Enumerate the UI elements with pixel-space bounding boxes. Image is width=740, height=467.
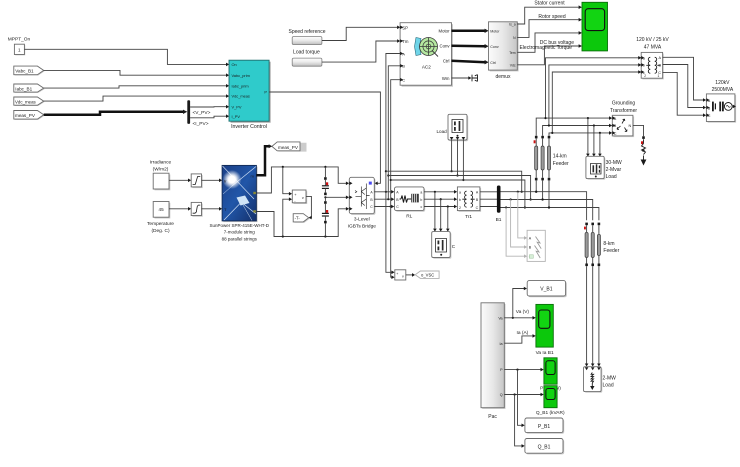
svg-text:Load: Load	[603, 383, 614, 389]
constant Speed reference	[292, 37, 322, 45]
svg-text:Load torque: Load torque	[293, 49, 320, 55]
svg-text:Q_B1: Q_B1	[538, 444, 551, 450]
feeder 8-km column B	[591, 223, 594, 364]
svg-text:Stator current: Stator current	[534, 1, 565, 7]
scope Q_B1 (green)	[544, 386, 557, 408]
wire fault tap B (grey)	[511, 200, 525, 248]
svg-text:Speed reference: Speed reference	[289, 29, 326, 35]
PV array block	[222, 165, 258, 222]
voltage measurement V1	[292, 190, 307, 204]
constant block 1 (MPPT_On)	[14, 44, 25, 55]
svg-text:Electromagnetic Torque: Electromagnetic Torque	[519, 45, 572, 51]
svg-text:On: On	[232, 62, 237, 67]
svg-text:SunPower SPR-415E-WHT-D: SunPower SPR-415E-WHT-D	[210, 223, 270, 228]
wire transformer b feed	[549, 65, 641, 126]
load block (motor bus)	[448, 114, 468, 141]
wire Tr1 C to B1	[480, 206, 497, 208]
wire PV m to meas_PV (thick)	[256, 146, 269, 175]
svg-text:(Deg. C): (Deg. C)	[151, 228, 170, 234]
wire Pac Q to scope and Q_B1	[504, 394, 540, 396]
svg-text:8-km: 8-km	[603, 241, 614, 247]
svg-text:(W/m2): (W/m2)	[153, 166, 169, 172]
svg-text:Inverter Control: Inverter Control	[231, 124, 267, 130]
goto P_B1	[525, 418, 564, 434]
svg-text:2: 2	[459, 206, 461, 210]
wire AC2 Ctrl to demux (thick)	[452, 61, 486, 63]
goto tag meas_PV	[272, 142, 307, 152]
svg-text:V_PV: V_PV	[232, 104, 242, 109]
feeder 8-km column A	[584, 223, 588, 364]
svg-text:88 parallel strings: 88 parallel strings	[222, 237, 258, 242]
svg-text:Irradiance: Irradiance	[150, 159, 172, 165]
wire RL a to Tr1	[424, 191, 454, 193]
transformer Tr1	[457, 187, 481, 212]
wire IGBT B to RL	[374, 198, 391, 200]
svg-text:Feeder: Feeder	[553, 161, 569, 167]
svg-text:-T-: -T-	[295, 216, 301, 221]
svg-text:Vabc_B1: Vabc_B1	[15, 69, 34, 74]
svg-text:Temperature: Temperature	[147, 221, 174, 227]
wire V1 plus input	[283, 167, 289, 194]
svg-text:Vdc_meas: Vdc_meas	[15, 99, 37, 104]
goto tag -T-	[293, 214, 310, 223]
wire Temperature to saturation2	[169, 208, 188, 210]
wire PV plus to IGBT (dc+)	[256, 167, 346, 193]
wire fault tap A (grey)	[518, 192, 524, 238]
wire V1 out to goto -T-	[306, 196, 311, 217]
wire Vdc_meas to Inverter	[44, 96, 227, 101]
svg-text:IGBTs Bridge: IGBTs Bridge	[348, 224, 377, 230]
svg-text:b: b	[459, 198, 461, 202]
constant Load torque	[292, 58, 322, 66]
wire grounding N to arrester	[633, 125, 644, 136]
wire AC2 Motor to demux (thick)	[452, 30, 486, 33]
svg-text:2-MW: 2-MW	[603, 375, 617, 381]
constant Temperature 45	[153, 202, 170, 219]
source 120kV 2500MVA	[706, 94, 736, 123]
from tag Vdc_meas	[14, 97, 45, 106]
wire transformer c feed	[552, 72, 641, 133]
svg-text:<I_PV>: <I_PV>	[193, 121, 209, 127]
svg-text:Load: Load	[437, 129, 448, 134]
feeder 14-km column A	[534, 136, 538, 193]
svg-text:Load: Load	[606, 174, 617, 180]
series block RL	[395, 187, 426, 212]
svg-text:Grounding: Grounding	[612, 101, 636, 107]
wire IGBT C to RL	[374, 206, 391, 208]
svg-text:+: +	[396, 272, 398, 276]
wire arrows into 2-MW load	[585, 364, 589, 367]
svg-text:Va Ia B1: Va Ia B1	[536, 350, 554, 356]
wire B1 bus phase A	[501, 192, 587, 221]
wire bus selector I_PV out	[190, 116, 226, 118]
svg-text:30-MW: 30-MW	[606, 160, 622, 166]
wire Speed reference to AC2 SP	[322, 27, 397, 40]
svg-text:1: 1	[658, 74, 660, 78]
scope machines (green)	[582, 2, 608, 51]
wire B1 bus phase C	[501, 208, 599, 221]
wire grid bus phase B	[543, 126, 610, 136]
svg-text:meas_PV: meas_PV	[15, 113, 36, 118]
scope P_B1 (green)	[544, 358, 557, 384]
wire Irradiance to saturation	[169, 179, 188, 181]
fault block (three-phase fault, commented grey)	[527, 230, 545, 261]
wire transformer C to source	[663, 72, 704, 115]
svg-text:meas_PV: meas_PV	[278, 145, 299, 150]
wire transformer B to source	[663, 65, 704, 108]
svg-text:Tem: Tem	[509, 51, 516, 55]
wire filter C taps	[434, 192, 436, 229]
wire motor bus phase C	[391, 180, 525, 208]
svg-text:Tr1: Tr1	[465, 214, 472, 220]
wire B1 bus phase B	[501, 200, 593, 221]
wire 30-MW load taps	[587, 118, 589, 154]
svg-text:Rotor speed: Rotor speed	[538, 14, 565, 20]
svg-text:c: c	[421, 205, 423, 209]
svg-text:AC2: AC2	[422, 64, 431, 69]
wire V1 minus input	[283, 199, 289, 236]
wire grid bus phase A	[536, 118, 609, 136]
saturation block 1	[191, 174, 203, 188]
transformer 120kV/25kV	[641, 52, 664, 79]
svg-text:2-Mvar: 2-Mvar	[606, 167, 622, 173]
capacitor C1 (dc link top)	[322, 167, 329, 195]
svg-text:Iabc_B1: Iabc_B1	[15, 86, 32, 91]
svg-text:Tm: Tm	[402, 39, 409, 44]
drive block AC2	[400, 23, 453, 87]
svg-text:3-Level: 3-Level	[354, 217, 370, 223]
breaker B1 bar	[497, 186, 501, 213]
wire demux Is_a to scope	[517, 7, 579, 24]
goto tag o_VSC	[415, 271, 439, 278]
svg-text:SP: SP	[402, 25, 408, 30]
filter capacitor bank C	[432, 232, 452, 259]
svg-text:Q_B1 (kVAR): Q_B1 (kVAR)	[536, 410, 565, 416]
svg-text:I_PV: I_PV	[232, 114, 241, 119]
wire transformer a feed (from grid bus)	[546, 58, 642, 118]
grounding transformer block	[612, 115, 634, 137]
svg-text:demux: demux	[495, 74, 511, 80]
load 30-MW 2-Mvar	[586, 156, 605, 180]
svg-text:Ia (A): Ia (A)	[517, 330, 529, 336]
svg-text:Vdc: Vdc	[510, 63, 516, 67]
wire AC2 B drop	[388, 66, 400, 199]
scope Va Ia B1 (green)	[536, 304, 553, 347]
wire bus selector V_PV out	[190, 106, 226, 108]
wire Load torque to AC2 Tm	[322, 41, 397, 62]
svg-text:v: v	[402, 275, 404, 279]
from tag Iabc_B1	[14, 84, 45, 93]
svg-text:N: N	[628, 124, 631, 128]
svg-text:Feeder: Feeder	[603, 248, 619, 254]
feeder 8-km column C	[597, 223, 600, 364]
svg-text:14-km: 14-km	[553, 154, 567, 160]
svg-text:Is_a: Is_a	[509, 23, 516, 27]
svg-text:V_B1: V_B1	[540, 287, 552, 293]
svg-text:Vabc_prim: Vabc_prim	[232, 73, 250, 78]
wire Pac Ia to scope	[504, 336, 532, 343]
svg-text:45: 45	[159, 207, 165, 212]
svg-text:o_VSC: o_VSC	[421, 273, 434, 278]
svg-text:b: b	[420, 198, 422, 202]
IGBT bridge block	[349, 177, 375, 215]
svg-text:Motor: Motor	[439, 29, 451, 34]
motor icon inside AC2	[415, 38, 422, 56]
wire MPPT_On to Inverter On	[24, 49, 226, 64]
svg-text:Ctrl: Ctrl	[443, 59, 450, 64]
capacitor C2 (dc link bottom)	[322, 197, 329, 236]
svg-text:Conv: Conv	[490, 45, 499, 49]
load 2-MW	[584, 367, 603, 393]
voltage measurement +v (VSC)	[395, 270, 406, 280]
measurement subsystem Pac	[481, 303, 506, 409]
feeder 14-km column B	[541, 136, 544, 201]
goto Q_B1	[525, 439, 564, 455]
svg-text:Pac: Pac	[488, 414, 497, 420]
wire RL c to Tr1	[424, 206, 454, 208]
svg-text:B1: B1	[496, 217, 502, 223]
wire RL b to Tr1	[424, 198, 454, 200]
wire Pac P to scope and P_B1	[504, 369, 540, 371]
wire load taps to motor bus	[451, 140, 453, 171]
svg-text:Conv: Conv	[439, 44, 450, 49]
svg-text:Ctrl: Ctrl	[490, 61, 496, 65]
wire grid bus phase C	[549, 133, 609, 136]
wire fault tap C (grey)	[506, 208, 524, 257]
from tag Vabc_B1	[14, 66, 45, 75]
arrester to ground	[641, 136, 647, 165]
svg-text:2500MVA: 2500MVA	[712, 87, 734, 93]
svg-text:MPPT_On: MPPT_On	[8, 37, 31, 43]
svg-text:Iabc_prim: Iabc_prim	[232, 83, 249, 88]
svg-text:2: 2	[644, 74, 646, 78]
wire Pac Va to scope and V_B1	[504, 317, 532, 319]
svg-text:120 kV / 25 kV: 120 kV / 25 kV	[636, 37, 669, 43]
svg-text:RL: RL	[406, 213, 412, 219]
subsystem Inverter Control	[229, 60, 271, 122]
wire saturation1 to PV Ir	[202, 179, 220, 181]
wire demux N to scope	[517, 20, 579, 38]
wire Iabc_B1 to Inverter	[44, 86, 227, 88]
feeder 14-km column C	[547, 136, 550, 209]
svg-text:1: 1	[18, 48, 21, 53]
svg-text:v: v	[302, 196, 304, 200]
svg-text:a: a	[459, 191, 461, 195]
wire meas_PV to bus selector (thick)	[44, 112, 184, 115]
svg-text:Q: Q	[500, 393, 503, 397]
svg-text:P_B1: P_B1	[538, 424, 550, 430]
demux subsystem	[489, 22, 519, 72]
wire demux Tem to scope	[517, 33, 579, 52]
svg-text:Va (V): Va (V)	[516, 309, 530, 315]
wire Vabc_B1 to Inverter	[44, 70, 227, 75]
svg-text:Wm: Wm	[442, 76, 450, 81]
wire motor bus phase B	[388, 176, 530, 200]
bus selector bar	[187, 100, 190, 124]
svg-text:a: a	[420, 191, 422, 195]
wire AC2 Conv to demux (thick)	[452, 45, 486, 48]
constant Irradiance	[153, 173, 170, 190]
wire motor bus phase A	[386, 171, 522, 192]
wire Inverter pulses to IGBT gate	[269, 92, 380, 183]
wire saturation2 to PV T	[202, 208, 220, 210]
wire AC2 C drop to +v measurement	[391, 80, 400, 278]
wire IGBT A to RL	[374, 191, 391, 193]
wire Tr1 B to B1	[480, 198, 497, 200]
svg-text:47 MVA: 47 MVA	[644, 44, 662, 50]
svg-text:Vdc_meas: Vdc_meas	[232, 94, 250, 99]
svg-text:Motor: Motor	[490, 29, 500, 33]
wire Tr1 A to B1	[480, 191, 497, 193]
svg-text:7-module string: 7-module string	[224, 229, 256, 234]
svg-text:Transformer: Transformer	[610, 108, 637, 114]
svg-text:P: P	[264, 90, 267, 95]
wire dc midpoint to IGBT N	[325, 196, 346, 198]
svg-text:<V_PV>: <V_PV>	[193, 110, 211, 116]
wire transformer A to source	[663, 57, 704, 100]
goto V_B1	[527, 281, 567, 298]
wire AC2 A drop to +v measurement	[386, 54, 400, 273]
wire demux Vdc to scope	[517, 46, 579, 65]
wire AC2 Wm to terminator	[452, 77, 469, 79]
svg-text:120kV: 120kV	[715, 80, 730, 86]
wire +v out to o_VSC tag	[406, 274, 412, 276]
svg-text:C: C	[452, 244, 456, 249]
wire PV minus to IGBT (dc-)	[256, 209, 346, 237]
saturation block 2	[191, 202, 203, 216]
terminator Wm	[472, 75, 478, 82]
from tag meas_PV	[14, 111, 45, 120]
